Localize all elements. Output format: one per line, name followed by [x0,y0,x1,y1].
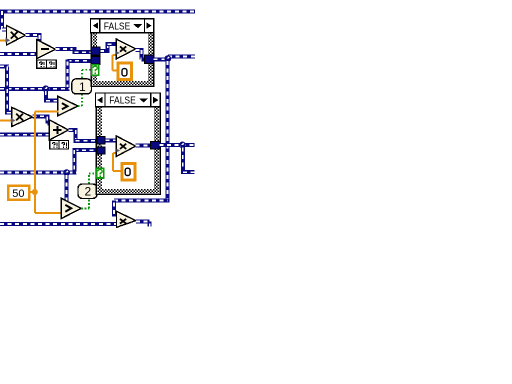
wire mult M2 top feed from left [0,66,13,114]
constant 50 [8,186,29,201]
wire W1 top horizontal [0,10,195,14]
multiply M4 [117,211,136,227]
greater-than node G1 [58,96,78,116]
case1 selector terminal [92,65,99,76]
wire M4 output hook [136,221,150,226]
junction dot at (168,58.6) [164,55,171,62]
green dotted wire G1 output to case1 selector [78,70,91,106]
wire branch down to greater-than G1 [44,89,59,101]
case2 left tunnel B [97,147,105,154]
svg-text:FALSE: FALSE [104,21,131,32]
wire orange into M2 lower input [0,120,13,122]
case1 multiply node [116,39,136,59]
multiply M1 [7,26,26,46]
case2 wire inside from tunnel A to multiply [106,138,117,142]
wire case2 output with junction [159,143,194,147]
wire add output to case2 tunnel A [69,130,99,141]
wire subtract lower input from left edge [0,52,37,56]
coercion arrow on M2 lower input [11,118,16,123]
case1 constant 0 [118,63,132,80]
case1 wire multiply output to right tunnel [136,48,146,59]
case1 right tunnel [145,55,154,64]
wire case1 output with junction [154,56,195,59]
case structure 2 selector label bar [95,93,160,107]
case structure 1 body [91,33,153,87]
case2 multiply node [116,136,135,156]
wire branch down from case2 junction [181,145,195,172]
subtract node S1 [37,40,56,59]
wire M1 output to subtract [26,33,42,42]
add node A1 [49,120,68,140]
wire add lower input from left edge [0,133,50,137]
constant 2 [78,184,97,199]
case2 left tunnel A [97,136,105,144]
svg-text:50: 50 [12,188,24,200]
case2 wire multiply output to right tunnel [136,144,151,148]
case2 right tunnel [151,142,160,149]
wire subtract output to case1 tunnel [56,47,94,52]
case2 selector terminal [97,168,104,178]
wire M4 lower input from left edge [0,222,117,226]
case2 constant 0 [122,163,135,180]
case structure 2 body [96,107,160,195]
wire M2 output to add node [33,116,51,123]
svg-text:1: 1 [79,80,86,94]
case1 orange wire from constant 0 [113,55,118,71]
case1 wire inside from tunnel A to multiply [100,44,116,51]
wire orange into M1 lower input [0,39,7,41]
junction dot on wire at (45.8,88.8) [42,85,49,92]
wire branch down to greater-than G2 [65,173,69,202]
green dotted wire G2 output to case2 selector [81,173,96,208]
wire W1 branch down to multiply M1 [2,10,8,30]
wire orange from 50 with junction [29,112,62,213]
wire into case2 tunnel B from below [0,148,99,172]
coercion arrow on M1 lower input [6,38,11,43]
case1 left tunnel A [91,47,100,55]
wire long vertical down from case1 junction [114,59,169,217]
?!?! icon under add [50,141,69,149]
constant 1 [72,79,92,94]
junction dot at (182.4,144.9) [179,142,186,149]
svg-text:FALSE: FALSE [109,96,136,107]
coercion arrow case1 multiply lower input [116,51,120,54]
coercion arrow case2 multiply lower input [117,149,121,152]
case2 orange wire from constant 0 [113,153,123,171]
case structure 1 selector label bar [90,19,153,33]
svg-text:2: 2 [85,185,92,199]
greater-than node G2 [61,198,81,218]
wire U-shape into case1 tunnel B [0,60,93,89]
junction dot at (66.6,172.6) [63,169,70,176]
?!?! icon under subtract [37,60,57,68]
multiply M2 [12,107,33,126]
case1 left tunnel B [91,56,100,64]
